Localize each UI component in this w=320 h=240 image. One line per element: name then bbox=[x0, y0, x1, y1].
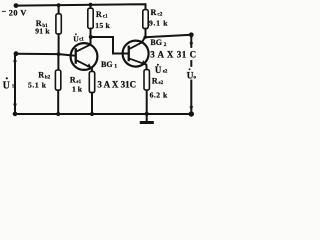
svg-text:R: R bbox=[38, 71, 44, 80]
svg-text:U: U bbox=[155, 65, 162, 75]
svg-text:2: 2 bbox=[164, 42, 167, 48]
label -20 V bbox=[2, 7, 27, 17]
svg-text:20 V: 20 V bbox=[9, 8, 27, 17]
node Re2 bottom / ground bbox=[145, 112, 149, 116]
transistor BG2 bbox=[123, 41, 149, 67]
label Ui bbox=[3, 77, 15, 91]
svg-text:3 A X 31 C: 3 A X 31 C bbox=[150, 49, 197, 59]
ground symbol bbox=[140, 114, 154, 124]
wire Rc2 bottom lead bbox=[145, 29, 147, 38]
svg-text:c2: c2 bbox=[157, 12, 162, 18]
svg-text:b2: b2 bbox=[45, 75, 51, 80]
svg-text:1 k: 1 k bbox=[72, 85, 83, 94]
label BG1 bbox=[101, 60, 117, 70]
svg-text:91 k: 91 k bbox=[35, 26, 50, 35]
svg-text:5.1 k: 5.1 k bbox=[28, 81, 47, 90]
resistor Rc1 bbox=[88, 8, 93, 28]
svg-text:R: R bbox=[96, 10, 102, 19]
svg-text:BG: BG bbox=[101, 60, 113, 69]
svg-text:6.2 k: 6.2 k bbox=[150, 91, 168, 100]
svg-text:9.1 k: 9.1 k bbox=[149, 18, 168, 27]
wire bottom ground rail bbox=[15, 113, 191, 115]
svg-text:3 A X 31C: 3 A X 31C bbox=[97, 79, 136, 89]
node base divider junction bbox=[57, 52, 61, 56]
svg-text:e2: e2 bbox=[163, 70, 168, 75]
resistor Rb1 bbox=[56, 14, 61, 34]
wire BG2 emitter lead bbox=[145, 65, 147, 70]
wire coupling BG1 collector to BG2 base bbox=[91, 37, 128, 54]
node output top bbox=[189, 32, 194, 37]
node Rc1 tap on rail bbox=[89, 3, 93, 7]
svg-text:R: R bbox=[70, 75, 76, 84]
node output bottom bbox=[189, 111, 194, 116]
node BG1 collector junction bbox=[89, 35, 93, 39]
label Re2 bbox=[150, 76, 168, 99]
wire BG1 emitter lead bbox=[91, 68, 93, 71]
arrow output lower down bbox=[190, 106, 194, 112]
wire Rc1 top lead bbox=[90, 5, 92, 9]
node Rb1 tap on rail bbox=[57, 3, 61, 7]
svg-text:U: U bbox=[3, 81, 10, 92]
wire Rb2 top lead bbox=[57, 54, 59, 70]
svg-text:R: R bbox=[152, 76, 158, 85]
label BG2 bbox=[150, 38, 166, 48]
svg-text:1: 1 bbox=[114, 64, 117, 70]
wire top supply rail bbox=[16, 4, 146, 9]
wire Re2 bottom lead bbox=[146, 90, 148, 114]
svg-text:−: − bbox=[2, 7, 7, 16]
node input terminal bbox=[14, 51, 19, 56]
arrow input up bbox=[13, 56, 17, 61]
label Rc2 bbox=[149, 8, 168, 27]
resistor Rb2 bbox=[55, 70, 60, 90]
svg-text:c1: c1 bbox=[79, 38, 84, 43]
svg-text:BG: BG bbox=[150, 38, 162, 47]
resistor Rc2 bbox=[143, 10, 148, 29]
resistor Re1 bbox=[89, 71, 94, 92]
wire Re1 bottom lead bbox=[91, 93, 93, 114]
resistor Re2 bbox=[144, 70, 149, 90]
wire BG2 collector lead bbox=[142, 37, 145, 42]
wire Rb2 bottom lead bbox=[57, 90, 59, 114]
label Rc1 bbox=[95, 10, 110, 30]
wire Rb1 bottom to base node bbox=[58, 34, 60, 54]
svg-text:U: U bbox=[73, 34, 79, 43]
wire output line bbox=[190, 35, 192, 114]
label Rb1 bbox=[35, 19, 50, 35]
svg-text:e2: e2 bbox=[158, 81, 163, 86]
transistor BG1 bbox=[71, 43, 98, 70]
label Rb2 bbox=[28, 71, 51, 90]
wire Rc1 bottom to collector node bbox=[90, 29, 92, 45]
node BG2 collector junction bbox=[144, 36, 147, 39]
wire Rb1 top lead bbox=[58, 5, 60, 14]
wire collector output run bbox=[145, 35, 191, 38]
label 3AX31C of BG2 bbox=[189, 48, 199, 60]
node input bottom bbox=[13, 112, 18, 117]
svg-text:R: R bbox=[151, 8, 157, 17]
label Ue2 bbox=[155, 64, 168, 76]
label Uc1 bbox=[73, 33, 84, 43]
arrow input down bbox=[13, 104, 17, 110]
wire input line bbox=[14, 55, 16, 114]
svg-text:15 k: 15 k bbox=[95, 21, 110, 30]
wire input node to BG1 base bbox=[16, 54, 75, 56]
node -20V terminal bbox=[14, 3, 19, 8]
svg-text:o: o bbox=[193, 75, 196, 81]
node Re1 bottom bbox=[90, 112, 94, 116]
node Rb2 bottom bbox=[56, 112, 60, 116]
label Uo bbox=[186, 67, 199, 82]
svg-text:c1: c1 bbox=[103, 14, 108, 20]
label Re1 bbox=[70, 75, 83, 93]
wire Rc2 top lead from rail corner bbox=[145, 9, 147, 11]
arrow output upper down bbox=[190, 42, 194, 47]
